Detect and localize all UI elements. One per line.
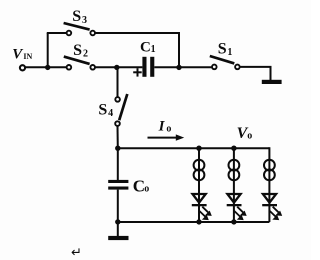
svg-text:S: S: [218, 41, 227, 58]
svg-text:C: C: [140, 40, 151, 56]
current source U3: [264, 160, 275, 181]
svg-text:S: S: [72, 8, 81, 25]
svg-text:1: 1: [227, 47, 232, 58]
LED D1: [192, 194, 212, 220]
wire S2 right contact to node A: [96, 66, 118, 68]
svg-text:o: o: [144, 184, 149, 195]
svg-text:4: 4: [108, 108, 113, 119]
svg-text:C: C: [133, 176, 145, 195]
node input junction: [45, 65, 50, 70]
switch S1: [210, 41, 240, 69]
switch S3: [64, 8, 95, 35]
svg-text:IN: IN: [23, 52, 32, 61]
LED D2: [227, 194, 247, 220]
wire S3 right contact to top-right corner: [96, 33, 180, 67]
wire VIN junction to S2 left contact: [48, 66, 66, 68]
wire ground stub bottom: [117, 222, 119, 236]
wire LED branch 2: [233, 148, 235, 222]
wire LED branch 3: [268, 147, 270, 222]
label VIN: [12, 46, 32, 62]
wire node B to S1 left contact: [179, 66, 212, 68]
wire bottom return bus: [118, 221, 270, 223]
label Vo: [237, 125, 253, 142]
svg-text:S: S: [98, 102, 107, 119]
switch S2: [64, 42, 95, 69]
current source U1: [194, 160, 205, 181]
wire C1 right plate to node B: [154, 66, 181, 68]
wire junction up to S3 rail: [47, 33, 49, 68]
label Io with arrow: [148, 118, 185, 140]
current source U2: [229, 160, 240, 181]
node Vo bus left junction: [115, 146, 120, 151]
wire Co bottom lead: [117, 190, 119, 222]
svg-text:3: 3: [82, 15, 87, 26]
svg-text:V: V: [12, 46, 24, 62]
wire node A down to S4 top contact: [117, 67, 119, 96]
svg-text:I: I: [158, 118, 166, 134]
wire Co top lead: [117, 148, 119, 180]
node bottom bus left junction: [115, 219, 120, 224]
capacitor C1: [140, 40, 156, 77]
LED D3: [262, 194, 282, 220]
svg-text:o: o: [247, 131, 252, 142]
ground bottom: [108, 236, 128, 240]
node LED branch 2 bottom junction: [231, 219, 236, 224]
node LED branch 1 bottom junction: [196, 219, 201, 224]
wire S4 bottom contact to output bus: [117, 126, 119, 148]
wire VIN terminal to junction: [25, 66, 47, 68]
svg-text:1: 1: [151, 44, 156, 55]
wire node A to C1 left plate: [117, 66, 143, 68]
svg-text:↵: ↵: [71, 245, 82, 260]
svg-text:o: o: [166, 124, 171, 135]
capacitor Co: [108, 176, 149, 195]
wire S1 right contact to ground stub: [240, 67, 270, 80]
switch S4: [98, 94, 127, 126]
node VIN input terminal: [20, 65, 25, 70]
ground right: [262, 80, 282, 84]
node LED branch 2 top junction: [231, 146, 236, 151]
wire to S3 left contact: [47, 32, 66, 34]
svg-text:S: S: [73, 42, 82, 59]
node B junction: [176, 65, 181, 70]
wire LED branch 1: [198, 148, 200, 222]
node LED branch 1 top junction: [196, 146, 201, 151]
node A junction: [114, 65, 119, 70]
wire top output bus: [118, 147, 270, 149]
svg-text:2: 2: [83, 49, 88, 60]
polarity plus sign of C1: [133, 68, 142, 76]
